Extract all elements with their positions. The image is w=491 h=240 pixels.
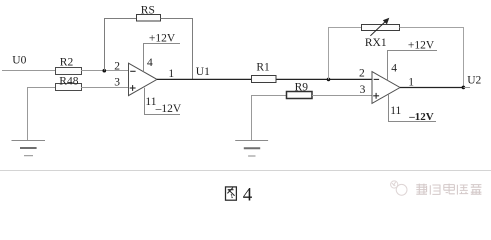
wire RX1 top left segment	[328, 27, 362, 29]
wire op-amp U2 pin 4 to +12V	[387, 51, 389, 81]
svg-text:4: 4	[243, 184, 253, 205]
svg-text:4: 4	[147, 57, 153, 69]
wire R9 left segment	[251, 95, 287, 97]
node junction dot U2	[462, 86, 466, 90]
resistor R2	[56, 57, 82, 75]
svg-text:1: 1	[408, 77, 414, 89]
power -12V rail op-amp U2	[388, 111, 436, 123]
wire RX1 right vertical down to U2 output	[463, 27, 465, 87]
wire R48 left segment	[27, 87, 56, 89]
svg-text:R9: R9	[295, 81, 309, 93]
svg-text:+12V: +12V	[408, 40, 435, 52]
wire feedback vertical from RS to junction	[104, 18, 106, 71]
wire U0 input to R2	[2, 70, 56, 72]
wire RS right segment	[161, 18, 193, 20]
wire U1 output to op-amp U2 pin 2	[157, 78, 372, 80]
wire U2 output	[400, 87, 463, 89]
svg-text:R48: R48	[59, 75, 78, 87]
wire op-amp U2 pin 11 to -12V	[388, 94, 390, 122]
wire op-amp U1 pin 11 to -12V	[144, 88, 146, 115]
wire RX1 top right segment	[400, 27, 465, 29]
separator line bottom	[0, 170, 491, 172]
svg-text:+12V: +12V	[149, 33, 176, 45]
wire op-amp U1 pin 4 to +12V	[143, 44, 145, 72]
wire R48 to op-amp U1 pin 3	[81, 87, 129, 89]
wire RS right vertical down to U1 output	[192, 18, 194, 79]
svg-text:U1: U1	[196, 66, 210, 78]
resistor R48	[56, 75, 82, 90]
resistor RS	[137, 4, 161, 21]
svg-text:2: 2	[359, 68, 365, 80]
power -12V rail op-amp U1	[144, 103, 182, 115]
logo text hui ren dian wei qi	[416, 184, 481, 195]
wire R9 corner vertical to ground	[251, 95, 253, 141]
wire U2 stub right	[463, 87, 470, 89]
svg-text:4: 4	[391, 63, 397, 75]
node junction dot RX1 tap	[327, 78, 331, 82]
svg-text:U0: U0	[12, 55, 26, 67]
ground middle	[235, 141, 268, 157]
wire RX1 left vertical	[328, 27, 330, 79]
svg-text:RX1: RX1	[365, 37, 387, 49]
resistor R1	[252, 61, 277, 82]
svg-text:RS: RS	[141, 4, 155, 16]
svg-text:2: 2	[114, 61, 120, 73]
svg-text:3: 3	[114, 77, 120, 89]
node junction dot at inverting input	[103, 69, 107, 73]
caption figure 4 glyph tu	[226, 187, 237, 200]
svg-text:3: 3	[360, 84, 366, 96]
wire R2 to op-amp U1 pin 2	[81, 70, 129, 72]
svg-text:11: 11	[390, 105, 401, 117]
op-amp U1	[129, 63, 158, 95]
svg-text:–12V: –12V	[155, 103, 182, 115]
resistor R9	[287, 81, 313, 98]
op-amp U2	[372, 72, 400, 104]
wire R9 to op-amp U2 pin 3	[312, 95, 373, 97]
svg-text:U2: U2	[467, 75, 481, 87]
svg-text:R2: R2	[60, 57, 74, 69]
wire R48 vertical to ground	[27, 87, 29, 141]
svg-text:R1: R1	[256, 61, 270, 73]
logo mark	[391, 181, 407, 195]
potentiometer RX1	[362, 18, 400, 49]
wire RS left segment	[104, 18, 137, 20]
power +12V rail op-amp U1	[143, 33, 180, 45]
svg-text:1: 1	[168, 68, 174, 80]
ground left	[12, 141, 46, 156]
power +12V rail op-amp U2	[387, 40, 437, 52]
